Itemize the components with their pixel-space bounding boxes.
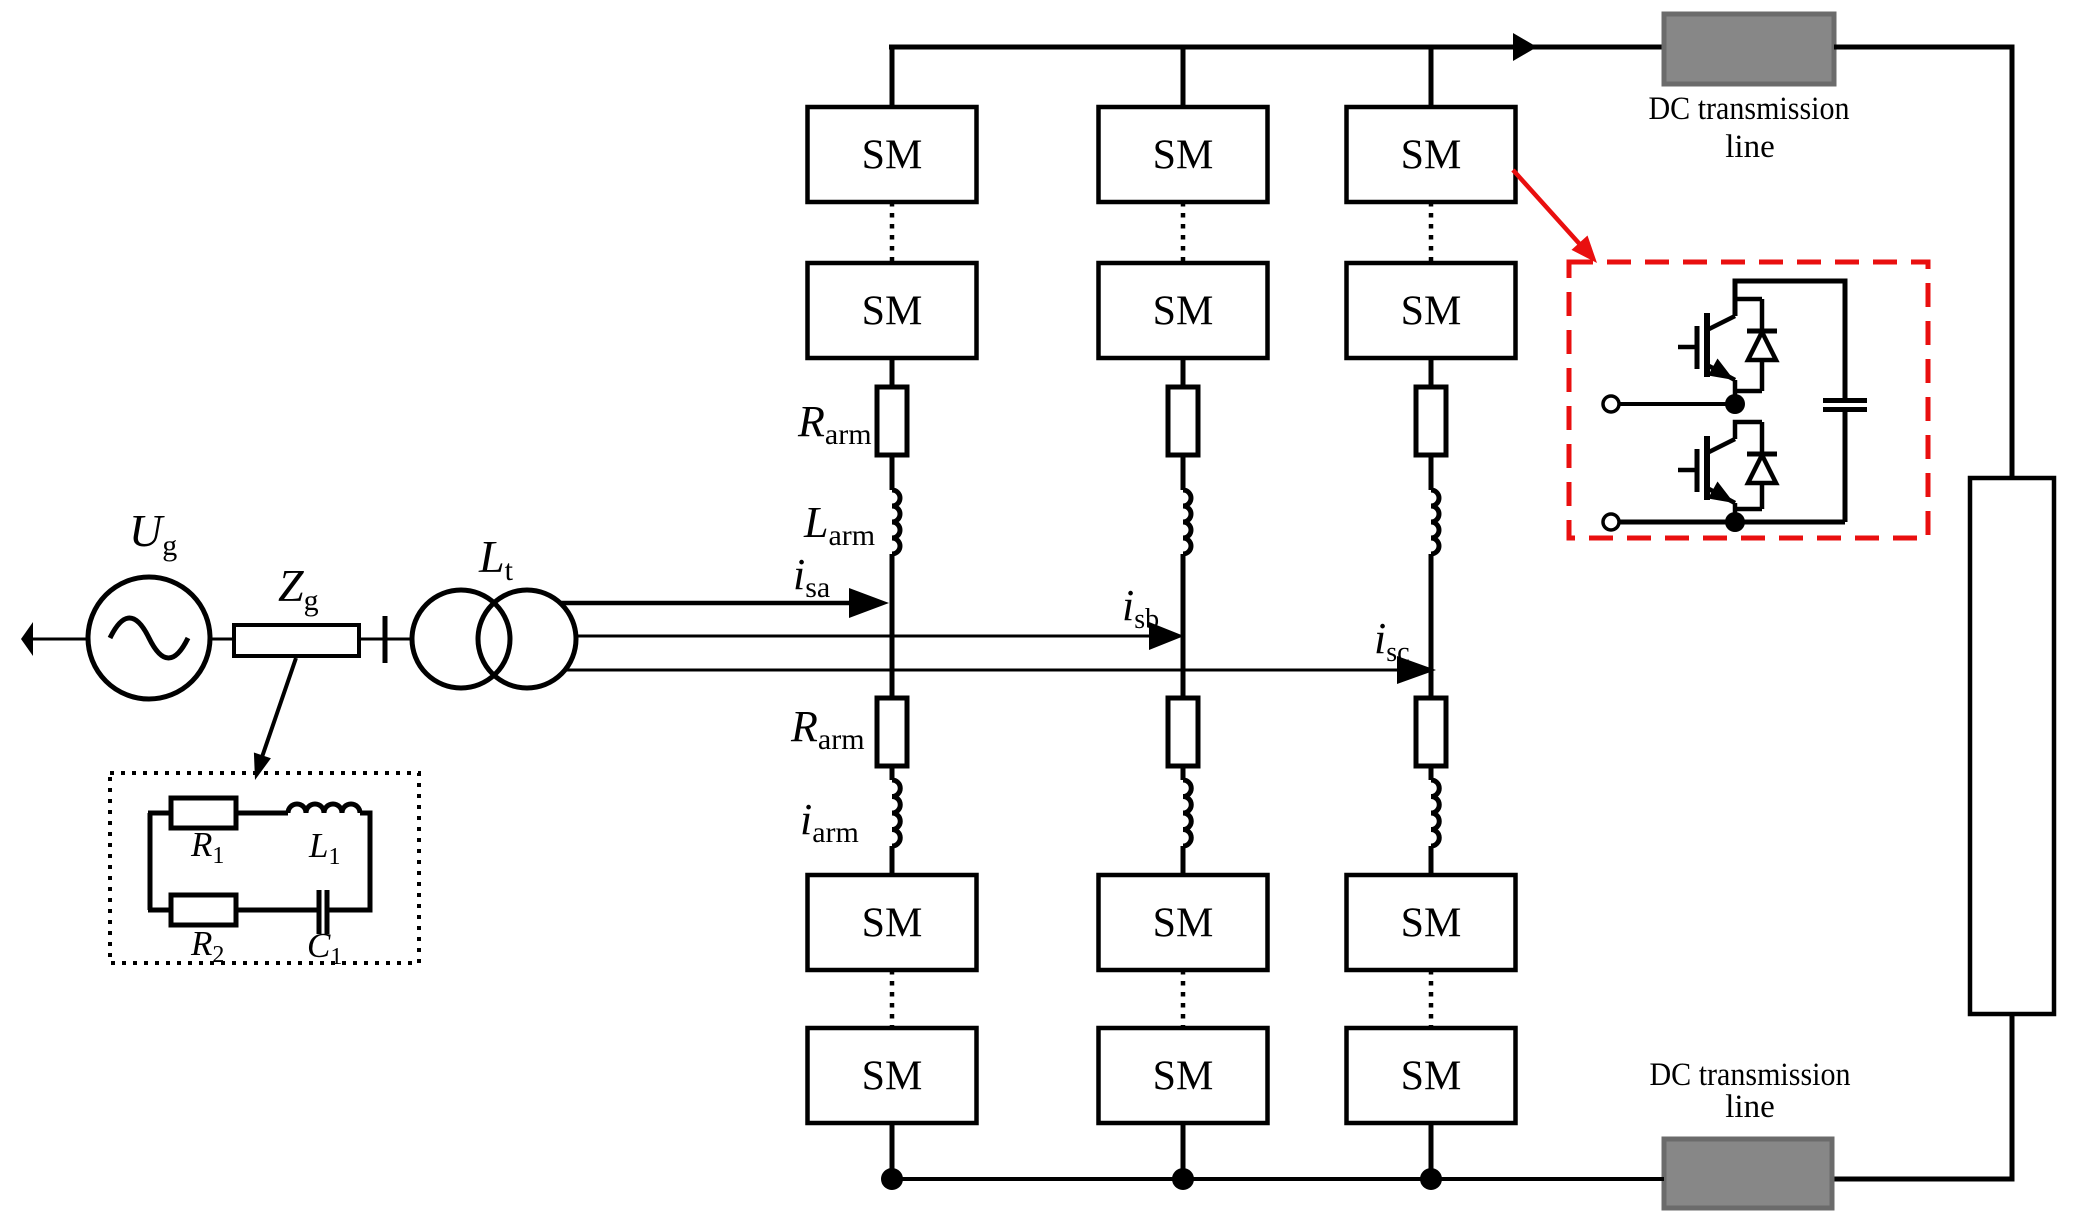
junction (phase c, DC- bus) <box>1420 1168 1442 1190</box>
wire (left vertical of Z_g detail) <box>148 813 153 910</box>
inductor L_arm (phase a upper) <box>892 490 900 554</box>
dotted continuation (phase c lower) <box>1429 970 1434 1028</box>
node (SM midpoint) <box>1725 394 1745 414</box>
svg-text:SM: SM <box>862 1054 923 1100</box>
svg-text:Rarm: Rarm <box>790 702 865 756</box>
resistor R2 <box>171 895 236 925</box>
svg-text:L1: L1 <box>308 826 340 870</box>
wire (AC grid stub, left) <box>33 638 88 641</box>
resistor R_arm (phase c upper) <box>1416 387 1446 455</box>
svg-text:isc: isc <box>1374 614 1410 668</box>
submodule SM (phase a, lower arm SM n) <box>808 1028 977 1123</box>
wire (SM top rail) <box>1735 281 1845 398</box>
resistor R_arm (phase b lower) <box>1168 698 1198 766</box>
SM detail box (red dashed) <box>1569 262 1928 538</box>
transformer L_t (two circles) <box>412 590 576 688</box>
wire <box>1429 358 1434 387</box>
wire (source to Z_g) <box>210 638 234 641</box>
terminal (SM input +) <box>1603 396 1619 412</box>
svg-text:SM: SM <box>862 289 923 335</box>
submodule SM (phase a, lower arm SM 1) <box>808 875 977 970</box>
wire (phase a top stub) <box>890 47 895 111</box>
svg-text:iarm: iarm <box>800 795 859 849</box>
dotted continuation (phase a upper) <box>890 202 895 263</box>
resistor R_arm (phase c lower) <box>1416 698 1446 766</box>
wire i_sa (phase a current line) <box>559 601 852 606</box>
wire <box>1181 1123 1186 1179</box>
svg-text:DC transmission: DC transmission <box>1649 91 1850 127</box>
submodule SM (phase c, upper arm SM 1) <box>1347 107 1516 202</box>
wire <box>148 811 171 816</box>
transistor Q2 (lower) collector connection <box>1735 422 1762 439</box>
wire (phase a midpoint) <box>890 554 895 698</box>
arrowhead (DC+ power flow) <box>1513 33 1537 61</box>
arrowhead i_sa <box>849 588 889 618</box>
svg-text:SM: SM <box>1153 901 1214 947</box>
svg-text:Rarm: Rarm <box>797 397 872 451</box>
svg-text:SM: SM <box>1153 1054 1214 1100</box>
wire DC+ bus (top) <box>889 45 1666 50</box>
svg-text:line: line <box>1725 1089 1774 1125</box>
wire (R2 to left vertical) <box>148 908 171 913</box>
wire (C1 to R2) <box>236 908 319 913</box>
submodule SM (phase c, lower arm SM n) <box>1347 1028 1516 1123</box>
transistor Q1 (upper) collector connection <box>1735 299 1762 316</box>
wire <box>1429 766 1434 780</box>
svg-text:SM: SM <box>862 133 923 179</box>
svg-text:SM: SM <box>1153 289 1214 335</box>
junction (phase a, DC- bus) <box>881 1168 903 1190</box>
wire (phase c top stub) <box>1429 47 1434 111</box>
svg-text:DC transmission: DC transmission <box>1650 1057 1851 1093</box>
wire <box>1429 455 1434 490</box>
inductor (phase a lower arm) <box>892 780 900 846</box>
arrowhead i_sc <box>1397 656 1436 684</box>
dotted continuation (phase a lower) <box>890 970 895 1028</box>
inductor (phase c lower arm) <box>1431 780 1439 846</box>
terminal (SM input -) <box>1603 514 1619 530</box>
capacitor C1 <box>319 890 327 934</box>
svg-text:Ug: Ug <box>129 505 177 562</box>
inductor L_arm (phase b upper) <box>1183 490 1191 554</box>
svg-text:SM: SM <box>1401 901 1462 947</box>
svg-text:R1: R1 <box>190 825 224 869</box>
wire (capacitor to SM bottom rail) <box>1843 412 1848 522</box>
wire <box>890 455 895 490</box>
arrowhead (to AC grid, pointing left) <box>21 622 33 656</box>
wire <box>890 1123 895 1179</box>
wire (phase b top stub) <box>1181 47 1186 111</box>
arrowhead i_sb <box>1149 622 1184 650</box>
svg-text:SM: SM <box>1153 133 1214 179</box>
svg-text:SM: SM <box>1401 133 1462 179</box>
wire (top bus to right side) <box>1834 47 2012 478</box>
wire <box>890 846 895 875</box>
resistor R_arm (phase b upper) <box>1168 387 1198 455</box>
transistor Q2 (lower) (IGBT) <box>1678 436 1735 522</box>
svg-text:SM: SM <box>1401 1054 1462 1100</box>
svg-text:Larm: Larm <box>803 498 875 552</box>
submodule SM (phase a, upper arm SM 1) <box>808 107 977 202</box>
submodule SM (phase b, upper arm SM 1) <box>1099 107 1268 202</box>
wire <box>890 358 895 387</box>
submodule SM (phase c, lower arm SM 1) <box>1347 875 1516 970</box>
svg-text:SM: SM <box>862 901 923 947</box>
wire (R1 to L1) <box>236 811 288 816</box>
callout arrow (SM to detail, red) <box>1513 170 1597 263</box>
submodule SM (phase a, upper arm SM n) <box>808 263 977 358</box>
resistor R1 <box>171 798 236 828</box>
resistor R_arm (phase a upper) <box>877 387 907 455</box>
wire (terminal to midpoint) <box>1619 402 1735 406</box>
wire (load to bottom bus) <box>1832 1014 2012 1179</box>
svg-text:isb: isb <box>1122 581 1159 635</box>
resistor R_arm (phase a lower) <box>877 698 907 766</box>
detail box (Z_g internals, dotted) <box>110 773 419 963</box>
submodule SM (phase b, lower arm SM 1) <box>1099 875 1268 970</box>
arrow (Z_g to detail box) <box>254 658 296 780</box>
wire <box>1181 455 1186 490</box>
svg-text:SM: SM <box>1401 289 1462 335</box>
svg-text:Zg: Zg <box>278 560 319 617</box>
DC transmission line (bottom, gray) <box>1664 1139 1832 1208</box>
wire DC- bus (bottom) <box>892 1177 1664 1181</box>
wire (SM bottom rail) <box>1619 520 1845 525</box>
svg-text:Lt: Lt <box>478 531 514 587</box>
wire <box>1181 358 1186 387</box>
wire (phase c midpoint) <box>1429 554 1434 698</box>
dotted continuation (phase b lower) <box>1181 970 1186 1028</box>
transistor Q1 (upper) (IGBT) <box>1678 313 1735 404</box>
impedance Z_g <box>234 625 359 656</box>
junction (phase b, DC- bus) <box>1172 1168 1194 1190</box>
bus tick <box>383 616 388 663</box>
inductor L1 <box>288 804 360 813</box>
dotted continuation (phase b upper) <box>1181 202 1186 263</box>
AC source U_g <box>88 577 210 699</box>
svg-text:line: line <box>1725 129 1774 165</box>
wire <box>1429 1123 1434 1179</box>
inductor (phase b lower arm) <box>1183 780 1191 846</box>
wire <box>1181 766 1186 780</box>
wire <box>1429 846 1434 875</box>
svg-text:isa: isa <box>793 550 830 604</box>
diode D) (antiparallel) <box>1735 299 1777 391</box>
diode D) (antiparallel) <box>1735 422 1777 509</box>
inductor L_arm (phase c upper) <box>1431 490 1439 554</box>
wire (right vertical of Z_g detail) <box>327 813 370 910</box>
submodule SM (phase c, upper arm SM n) <box>1347 263 1516 358</box>
DC load resistor (right) <box>1970 478 2054 1014</box>
wire (Z_g to transformer) <box>359 638 413 641</box>
wire <box>890 766 895 780</box>
wire (phase b midpoint) <box>1181 554 1186 698</box>
submodule SM (phase b, lower arm SM n) <box>1099 1028 1268 1123</box>
wire <box>1181 846 1186 875</box>
wire i_sc (phase c current line) <box>565 669 1400 672</box>
capacitor C (SM) <box>1823 401 1867 410</box>
submodule SM (phase b, upper arm SM n) <box>1099 263 1268 358</box>
dotted continuation (phase c upper) <box>1429 202 1434 263</box>
svg-text:R2: R2 <box>190 924 224 968</box>
node (SM bottom rail) <box>1725 512 1745 532</box>
wire i_sb (phase b current line) <box>576 635 1152 638</box>
svg-text:C1: C1 <box>307 926 342 970</box>
DC transmission line (top, gray) <box>1664 14 1834 84</box>
